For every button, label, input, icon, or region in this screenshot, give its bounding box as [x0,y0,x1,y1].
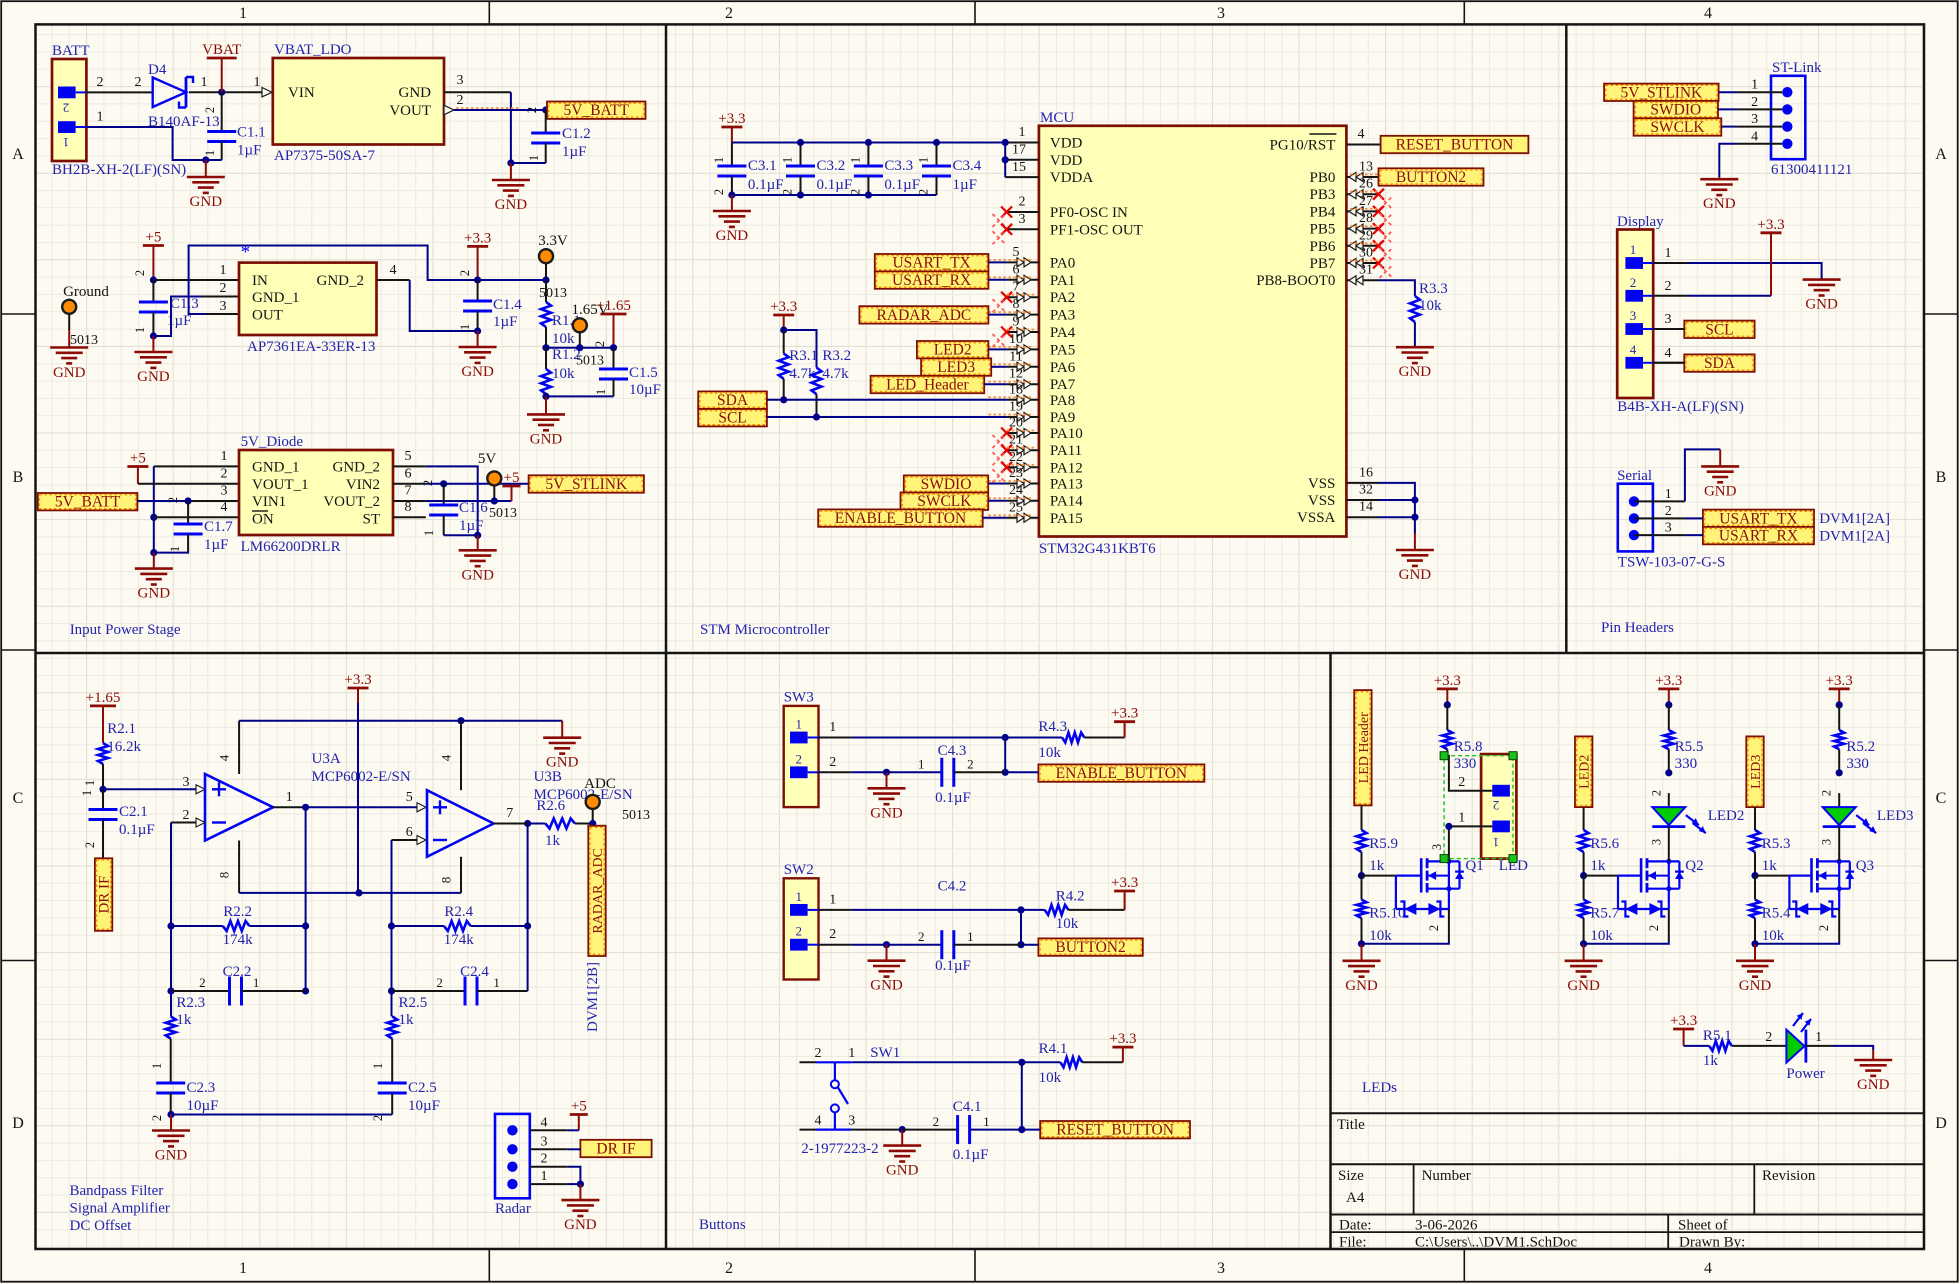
power symbol +1.65 (R2.1) [86,690,121,743]
svg-text:IN: IN [252,273,268,289]
pin number 1 of SW3 [829,720,836,735]
pin number 4 of AP7361 [390,263,397,278]
wire Display pin2 to +3.3 [1688,295,1771,297]
svg-text:File:: File: [1339,1235,1367,1251]
svg-text:23: 23 [1009,466,1023,481]
svg-text:PA5: PA5 [1050,342,1075,358]
svg-text:1: 1 [917,157,931,163]
junction Q2 gate [1580,872,1587,879]
pin number 2 of SW2 [829,927,836,942]
svg-text:1µF: 1µF [237,143,262,159]
svg-text:2: 2 [918,929,925,944]
pin PA0 stub [988,245,1039,267]
pin number 5 of U3B [406,790,413,805]
svg-text:1: 1 [781,157,795,163]
ground symbol Radar [561,1184,599,1233]
svg-text:1: 1 [63,135,70,150]
op-amp regulator U VBAT_LDO AP7375-50SA-7 [273,42,444,164]
power symbol +3.3 (R5.2) [1826,673,1853,705]
title block [1331,1113,1925,1250]
svg-text:2: 2 [203,107,217,113]
junction Q2 source bottom [1580,940,1587,947]
section title Pin Headers [1601,620,1674,636]
pin VSS16 [1346,465,1378,483]
pin number 8 of LM66200 right [405,500,412,515]
svg-text:2: 2 [1820,790,1834,796]
junction SW1 gnd tap [899,1126,906,1133]
wire BATT pin2 to D4 [86,91,152,93]
ground symbol Power LED [1854,1050,1892,1093]
svg-text:C3.2: C3.2 [817,158,846,174]
svg-text:4: 4 [390,263,397,278]
junction C2.4 left [388,987,395,994]
pin line 1 of Display [1653,262,1688,264]
ground symbol below C1.4 [459,331,497,380]
svg-text:GND: GND [716,228,749,244]
pin number 17 of MCU [1012,143,1026,158]
svg-text:5V_BATT: 5V_BATT [564,102,630,119]
capacitor C1.4 1uF [458,270,522,331]
wire Display pin1 to gnd [1688,263,1822,279]
switch SW1 2-1977223-2 [800,1045,1022,1157]
ground symbol below R3.3 [1396,346,1434,380]
svg-text:Number: Number [1422,1168,1471,1184]
svg-text:2-1977223-2: 2-1977223-2 [801,1141,879,1157]
wire SW1 to RESET port [1022,1129,1040,1131]
pin number 3 of AP7361 [220,299,227,314]
junction R1.2 bottom [542,393,549,400]
svg-text:10k: 10k [1590,928,1613,944]
capacitor C4.2 0.1uF [918,879,1021,975]
svg-text:+3.3: +3.3 [464,230,491,246]
svg-text:R4.3: R4.3 [1038,719,1067,735]
pin number 4 of Display [1665,346,1672,361]
svg-text:4.7k: 4.7k [822,366,849,382]
svg-text:28: 28 [1359,211,1373,226]
wire ENABLE_BUTTON [983,517,1007,519]
svg-text:R2.2: R2.2 [223,904,252,920]
svg-text:B4B-XH-A(LF)(SN): B4B-XH-A(LF)(SN) [1617,399,1744,415]
svg-text:+5: +5 [145,230,161,246]
svg-text:R3.1: R3.1 [789,348,818,364]
power symbol +5 (AP7361) [143,230,164,281]
svg-text:C2.5: C2.5 [408,1080,437,1096]
LED Power symbol [1786,1013,1824,1082]
IC U 5V_Diode LM66200DRLR [239,434,393,555]
svg-text:GND: GND [1567,978,1600,994]
wire R2.3 tap [170,991,172,1016]
svg-text:16: 16 [1359,465,1373,480]
junction C3.1 bottom [728,191,735,198]
wire R3.2 top [784,330,817,368]
svg-text:3: 3 [220,299,227,314]
ground symbol SW3 [868,772,906,821]
svg-text:ST-Link: ST-Link [1772,60,1822,76]
svg-text:ST: ST [362,512,380,528]
svg-text:C2.2: C2.2 [223,964,252,980]
svg-text:2: 2 [436,975,443,990]
svg-text:3: 3 [1630,308,1637,323]
svg-text:GND: GND [399,85,432,101]
svg-text:2: 2 [1649,790,1663,796]
svg-text:LM66200DRLR: LM66200DRLR [241,539,341,555]
svg-text:16.2k: 16.2k [107,739,141,755]
svg-text:PA14: PA14 [1050,494,1083,510]
ground symbol below C1.3 [134,336,172,385]
svg-text:STM Microcontroller: STM Microcontroller [700,622,830,638]
pin number 3 of U3A [183,775,190,790]
svg-text:AP7361EA-33ER-13: AP7361EA-33ER-13 [247,339,375,355]
port ENABLE_BUTTON (MCU) [818,509,983,527]
svg-text:2: 2 [1458,775,1465,790]
svg-text:C: C [1936,790,1947,807]
junction R3 top [780,326,787,333]
svg-text:USART_TX: USART_TX [892,255,970,272]
junction VDD rail corner [1002,139,1009,164]
svg-text:2: 2 [933,1114,940,1129]
svg-text:+3.3: +3.3 [344,672,371,688]
op-amp U3A MCP6002-E/SN [205,751,411,841]
svg-text:C4.3: C4.3 [938,743,967,759]
pin number 3 of ST-Link [1751,112,1758,127]
junction R1.2 top [542,344,549,351]
svg-text:4: 4 [439,754,454,761]
resistor R5.7 10k [1579,876,1620,944]
pin arrow U3B minus [417,836,426,845]
net reference DVM1[2A] TX [1819,511,1890,527]
svg-text:R5.4: R5.4 [1762,906,1791,922]
svg-text:1: 1 [83,780,97,786]
svg-text:D: D [1935,1115,1947,1132]
pin number 1 of U3A [286,790,293,805]
svg-text:2: 2 [199,975,206,990]
port USART_RX (MCU) [875,271,989,289]
svg-text:Power: Power [1786,1066,1824,1082]
svg-text:0.1µF: 0.1µF [884,177,920,193]
svg-text:1: 1 [203,150,217,156]
svg-text:Buttons: Buttons [699,1217,746,1233]
power symbol +3.3 (R4.1) [1109,1031,1136,1062]
svg-text:+3.3: +3.3 [1826,673,1853,689]
ground symbol below VSS [1396,533,1434,583]
svg-text:3.3V: 3.3V [538,233,568,249]
svg-text:BH2B-XH-2(LF)(SN): BH2B-XH-2(LF)(SN) [52,162,186,178]
capacitor C3.2 0.1µF [781,143,853,196]
svg-text:2: 2 [133,270,147,276]
svg-text:2: 2 [63,101,70,116]
svg-text:PB4: PB4 [1310,204,1336,220]
resistor R5.1 1k [1684,1028,1787,1069]
wire VSS to gnd [1379,483,1415,533]
pin PA12 stub [993,450,1039,483]
resistor R1.1 10k [541,280,581,348]
svg-text:1k: 1k [176,1012,192,1028]
svg-text:GND_2: GND_2 [333,460,381,476]
svg-text:2: 2 [848,189,862,195]
svg-text:GND: GND [1857,1077,1890,1093]
pin number 3 of Radar [541,1134,548,1149]
switch connector SW2 [784,862,819,980]
junction C1.4 bottom [474,327,481,334]
junction C1.7 top [185,497,192,504]
power symbol +3.3 (Power LED) [1670,1013,1697,1046]
svg-text:R5.2: R5.2 [1846,739,1875,755]
svg-text:1µF: 1µF [204,537,229,553]
svg-text:2: 2 [1751,95,1758,110]
pin PA3 stub [988,297,1039,319]
pin number 4 of LM66200 left [221,500,228,515]
svg-text:8: 8 [1013,297,1020,312]
pin number 3 rotated LED3 [1820,839,1834,845]
pin number 2 of Display [1665,279,1672,294]
junction LED pin1 [1445,823,1452,830]
svg-text:3: 3 [183,775,190,790]
svg-text:2: 2 [1665,504,1672,519]
svg-text:DC Offset: DC Offset [70,1218,133,1234]
pin number 1 of VBAT_LDO [254,75,261,90]
pin number 2 of U3A [183,808,190,823]
svg-text:PF1-OSC OUT: PF1-OSC OUT [1050,222,1143,238]
pin PA5 stub [988,332,1039,354]
junction SW3 gnd tap [883,769,890,776]
svg-text:ENABLE_BUTTON: ENABLE_BUTTON [1056,765,1187,782]
svg-text:Q1: Q1 [1465,858,1483,874]
svg-text:2: 2 [712,189,726,195]
port SWDIO (header) [1634,101,1718,119]
junction C2.2 left [167,987,174,994]
svg-text:LEDs: LEDs [1362,1080,1397,1096]
pin 8 rail of U3A [217,841,239,893]
pin number 1 of Radar [541,1169,548,1184]
svg-text:+5: +5 [130,451,146,467]
pin line 2 of Display [1653,295,1688,297]
ground symbol below C1.6 [459,535,497,583]
svg-text:GND_1: GND_1 [252,290,300,306]
power symbol +3.3 (R4.2) [1111,875,1138,910]
power symbol +3.3 (C1.4) [464,230,491,280]
svg-text:GND: GND [1703,196,1736,212]
pin PB3 stub [1346,177,1392,210]
pin number 1 of AP7361 [220,263,227,278]
section title STM Microcontroller [700,622,830,638]
svg-text:Radar: Radar [495,1201,531,1217]
svg-text:2: 2 [1647,925,1661,931]
port USART_RX (Serial) [1703,527,1814,545]
svg-text:SW2: SW2 [784,862,814,878]
svg-text:DVM1[2A]: DVM1[2A] [1819,511,1890,527]
svg-text:4: 4 [1665,346,1672,361]
svg-text:1: 1 [239,1260,247,1277]
pin PA4 stub [993,315,1039,348]
svg-text:2: 2 [83,842,97,848]
svg-text:3: 3 [848,1114,855,1129]
no-ERC cross PF0 [993,207,1013,228]
pin number 3 of VBAT_LDO [457,73,464,88]
junction SW2 row1 [1017,906,1024,913]
svg-text:D: D [12,1115,24,1132]
svg-text:5V: 5V [478,451,497,467]
pin 2 arrow of VBAT_LDO [444,105,454,114]
svg-text:10k: 10k [1039,1070,1062,1086]
pin number 15 of MCU [1012,160,1026,175]
svg-text:1: 1 [422,530,436,536]
svg-text:R2.6: R2.6 [536,798,565,814]
pin PB0 stub [1346,160,1378,182]
wire Display pin3 to SCL [1653,328,1684,330]
svg-text:5V_STLINK: 5V_STLINK [1620,84,1703,101]
wire 5V_STLINK to pin1 [1719,91,1737,93]
svg-text:R5.6: R5.6 [1590,836,1619,852]
svg-text:4: 4 [1630,342,1637,357]
junction C1.4 top [474,276,481,283]
svg-text:DR IF: DR IF [97,876,113,914]
svg-text:1: 1 [1630,242,1637,257]
wire USART_TX [988,261,1006,263]
svg-text:1: 1 [829,720,836,735]
svg-text:2: 2 [829,755,836,770]
svg-text:1: 1 [527,155,541,161]
connector ST-Link 61300411121 [1771,60,1852,178]
svg-text:2: 2 [1493,798,1500,813]
port LED3 (vertical) [1746,736,1764,807]
wire SCL [767,416,1007,418]
power symbol +3.3 (C3 rail) [718,111,745,143]
svg-text:4: 4 [1704,1260,1712,1277]
svg-text:1: 1 [1665,487,1672,502]
wire SW3 pin1 row [819,737,1006,739]
svg-text:SDA: SDA [717,392,749,409]
svg-text:Q3: Q3 [1856,858,1874,874]
wire 3.3V rail to R1.1 [478,279,546,281]
svg-text:2: 2 [795,751,802,766]
resistor R5.5 330 [1664,705,1704,773]
pin PB6 stub [1346,228,1392,260]
svg-text:PB7: PB7 [1310,256,1336,272]
port LED_Header (MCU) [871,376,985,394]
pin line 2 of Serial [1634,517,1685,519]
svg-text:1: 1 [1815,1030,1822,1045]
svg-text:0.1µF: 0.1µF [953,1147,989,1163]
svg-text:VIN1: VIN1 [252,494,286,510]
svg-text:RADAR_ADC: RADAR_ADC [877,307,972,324]
svg-text:Sheet of: Sheet of [1678,1218,1728,1234]
junction R5.2 top [1836,701,1843,708]
pin PB7 stub [1346,246,1392,279]
wire RADAR_ADC [988,314,1006,316]
wire LED2 [988,348,1006,350]
pin number 2 of D4 [135,75,142,90]
svg-text:2: 2 [220,281,227,296]
svg-text:174k: 174k [223,932,254,948]
switch connector SW3 [784,690,819,808]
svg-text:1: 1 [221,449,228,464]
resistor R2.5 1k [371,995,427,1083]
pin number 2 rotated LED2 [1649,790,1663,796]
svg-text:LED2: LED2 [1578,755,1593,789]
svg-text:10k: 10k [552,331,575,347]
ground symbol Q2 [1565,944,1603,994]
pin number 2 of LM66200 left [221,466,228,481]
svg-text:25: 25 [1009,500,1023,515]
junction VSSA14 [1411,514,1418,521]
pin PB4 stub [1346,194,1392,227]
wire feedback left leg U3B [391,926,393,991]
port RESET_BUTTON (MCU) [1381,136,1529,154]
svg-text:BATT: BATT [52,43,90,59]
svg-text:USART_RX: USART_RX [1719,528,1798,545]
svg-text:PA4: PA4 [1050,325,1076,341]
svg-text:2: 2 [421,480,435,486]
svg-text:1k: 1k [1762,858,1778,874]
svg-text:Revision: Revision [1762,1168,1816,1184]
junction Q3 gate [1751,872,1758,879]
LED LED2 symbol [1652,793,1706,861]
wire R2.5 tap [391,991,393,1016]
svg-text:+3.3: +3.3 [1670,1013,1697,1029]
svg-text:B: B [13,469,24,486]
svg-text:GND: GND [137,369,170,385]
wire LED_Header port to R5.9 [1361,805,1363,830]
resistor R2.6 1k [528,798,593,849]
svg-text:1: 1 [967,929,974,944]
junction R2.4 left [388,922,395,929]
junction C1.1 gnd [202,156,209,163]
svg-text:R2.4: R2.4 [444,904,473,920]
capacitor C3.4 1µF [917,143,982,196]
svg-text:C1.2: C1.2 [562,126,591,142]
svg-text:GND: GND [870,805,903,821]
svg-text:VDDA: VDDA [1050,170,1093,186]
svg-text:RADAR_ADC: RADAR_ADC [591,848,606,934]
port SWCLK (MCU) [901,493,989,511]
svg-text:7: 7 [405,484,412,499]
svg-text:R3.2: R3.2 [822,348,851,364]
wire Display pin4 to SDA [1653,362,1684,364]
svg-text:1: 1 [371,1063,385,1069]
MCU left pin names [1050,136,1143,527]
pin 4 rail of U3A [217,721,239,774]
svg-text:C4.2: C4.2 [938,879,967,895]
wire GND_1 pin2 to gnd [153,297,239,337]
svg-text:1k: 1k [399,1012,415,1028]
wire GND_2 pin4 to gnd rail [377,280,478,331]
svg-text:VSSA: VSSA [1297,510,1336,526]
svg-text:R2.3: R2.3 [176,995,205,1011]
svg-text:Display: Display [1617,214,1664,230]
wire op-amp VSS rail to gnd [239,720,562,722]
svg-text:U3B: U3B [534,769,562,785]
svg-text:0.1µF: 0.1µF [817,177,853,193]
svg-text:5V_STLINK: 5V_STLINK [545,476,628,493]
junction SW1 row1 right [1018,1059,1025,1066]
svg-text:Signal Amplifier: Signal Amplifier [70,1201,170,1217]
pin PA1 stub [988,262,1039,284]
capacitor C1.6 1uF [421,480,488,536]
svg-text:7: 7 [506,806,513,821]
pin PA10 stub [993,416,1039,449]
svg-text:1: 1 [201,75,208,90]
svg-text:VBAT_LDO: VBAT_LDO [274,42,352,58]
svg-text:R1.2: R1.2 [552,347,581,363]
ground symbol op-amp rail [543,721,581,771]
pin PB5 stub [1346,211,1392,244]
svg-text:4: 4 [815,1114,822,1129]
svg-text:1µF: 1µF [459,518,484,534]
svg-text:PB6: PB6 [1310,239,1336,255]
power symbol +3.3 (Display) [1757,217,1784,296]
pin number 2 of Serial [1665,504,1672,519]
capacitor C2.2 270pF [171,964,306,1006]
